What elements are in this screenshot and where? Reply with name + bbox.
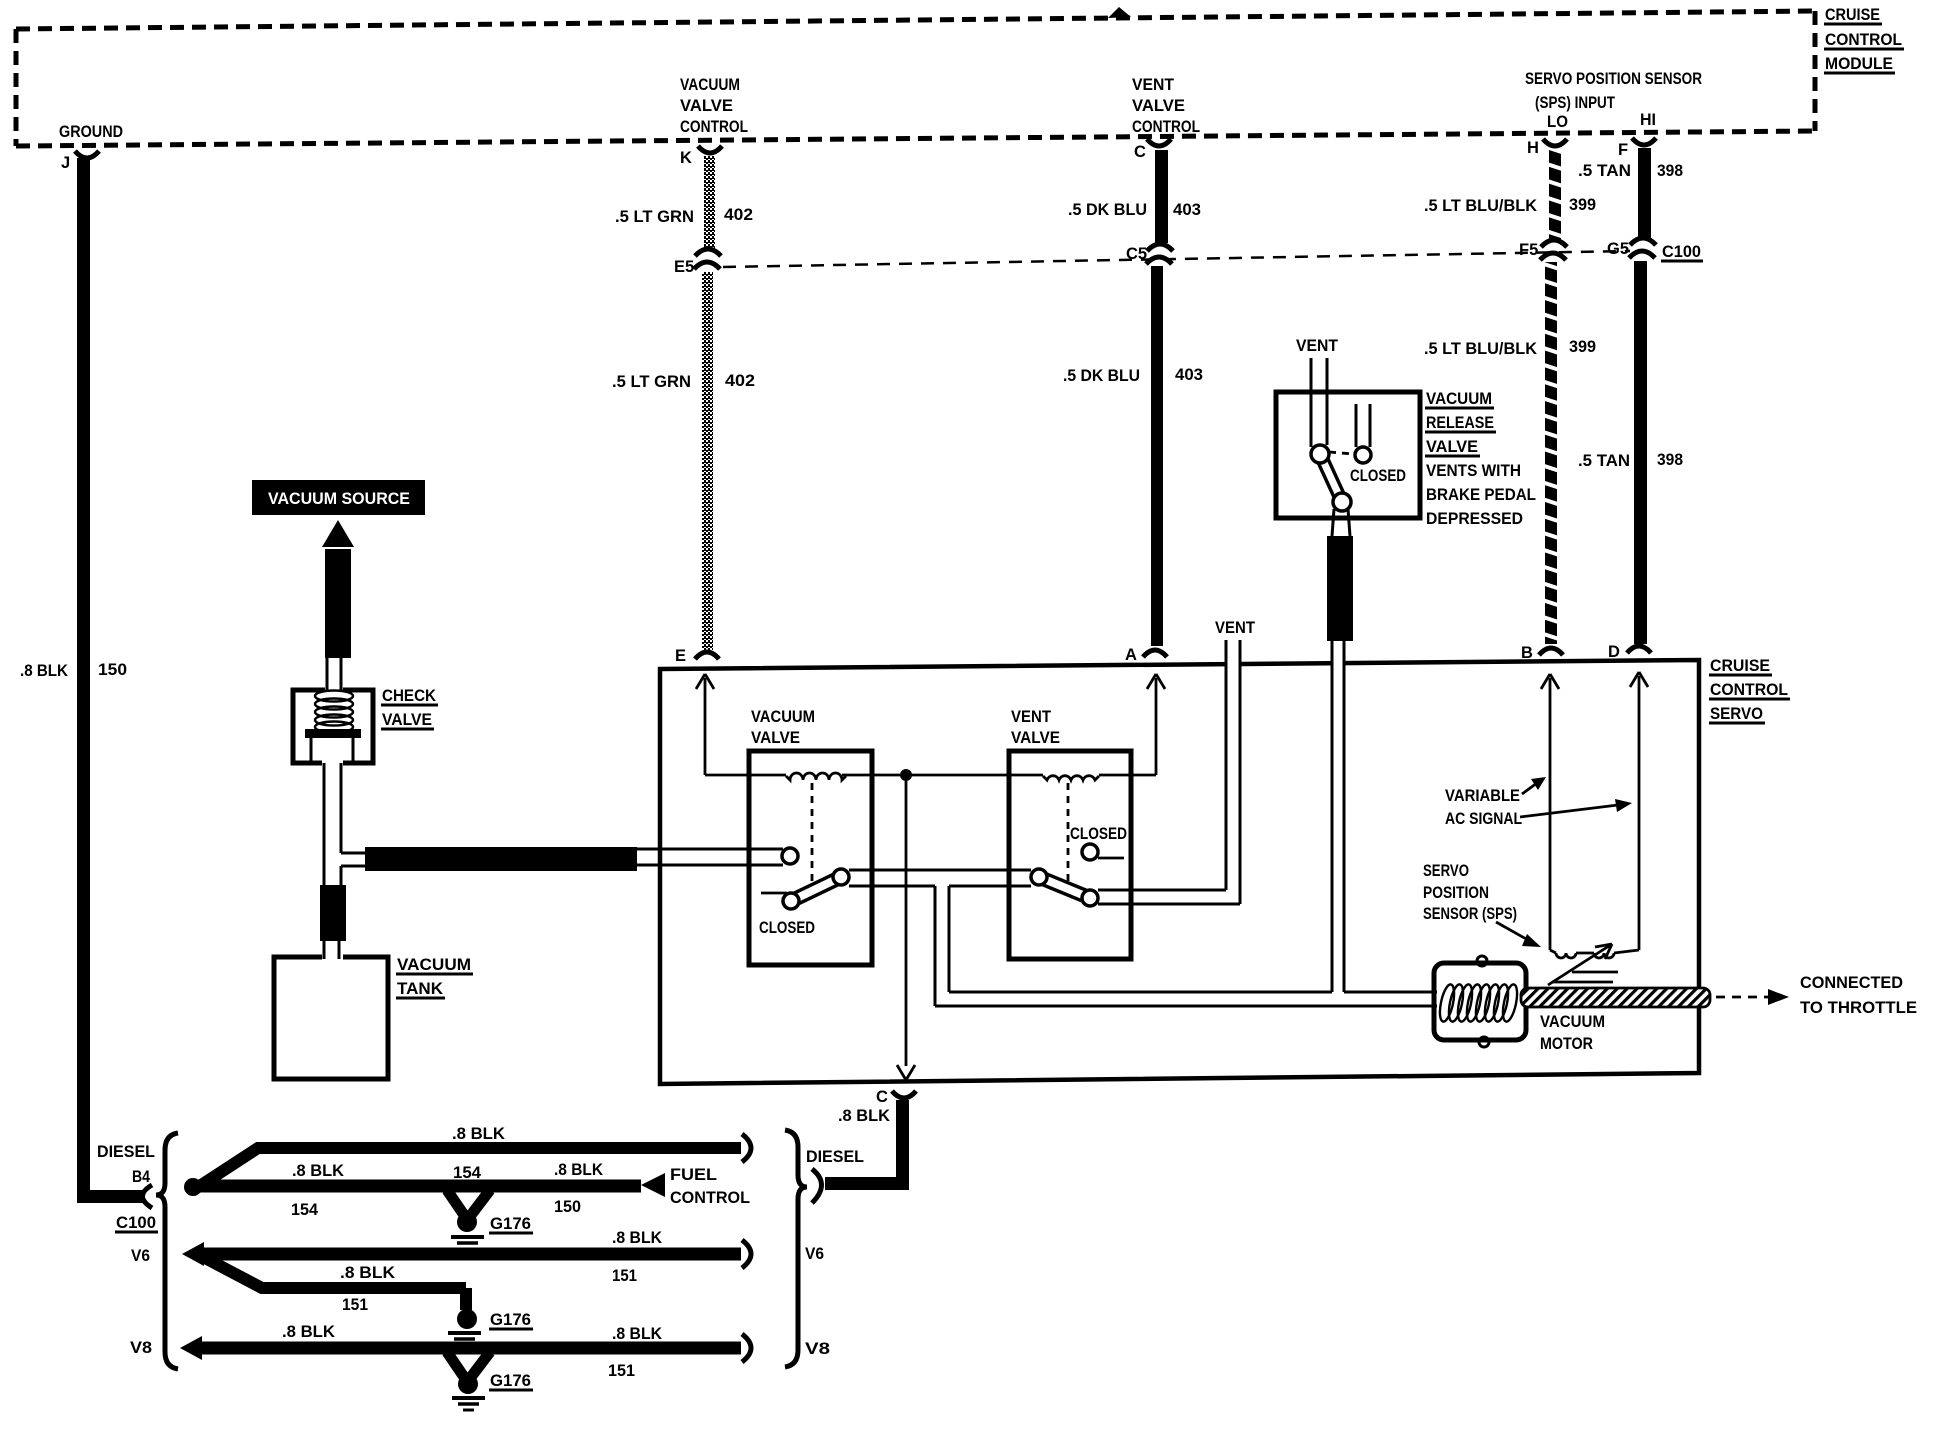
vacuum source label (black box) bbox=[252, 480, 425, 515]
svg-text:VALVE: VALVE bbox=[751, 729, 800, 747]
hose from vacuum source (black) bbox=[325, 549, 351, 658]
svg-text:TANK: TANK bbox=[397, 980, 443, 998]
svg-text:VACUUM SOURCE: VACUUM SOURCE bbox=[268, 489, 410, 508]
ground V to G176 (diesel) bbox=[447, 1190, 464, 1215]
svg-text:.5 LT GRN: .5 LT GRN bbox=[612, 373, 691, 391]
svg-text:.8 BLK: .8 BLK bbox=[292, 1162, 344, 1180]
svg-text:CONTROL: CONTROL bbox=[1710, 680, 1788, 699]
arrow variable to B wire bbox=[1522, 783, 1537, 794]
svg-text:G5: G5 bbox=[1607, 240, 1629, 258]
wire coil to A arrow bbox=[1099, 774, 1156, 777]
svg-text:CHECK: CHECK bbox=[382, 687, 436, 705]
vacuum motor bottom nipple bbox=[1479, 1037, 1489, 1047]
ground V to G176 (V8) bbox=[447, 1352, 464, 1377]
vacuum tank box bbox=[274, 957, 388, 1079]
svg-text:POSITION: POSITION bbox=[1423, 884, 1489, 902]
vacuum valve seat line bbox=[761, 892, 787, 895]
svg-text:C100: C100 bbox=[1662, 243, 1701, 261]
arrow variable to D wire bbox=[1520, 805, 1618, 817]
svg-text:CLOSED: CLOSED bbox=[1350, 467, 1406, 485]
tee to hose bbox=[341, 853, 366, 866]
connector hook at diesel brace bbox=[812, 1169, 822, 1203]
svg-text:VACUUM: VACUUM bbox=[751, 708, 815, 726]
svg-text:B4: B4 bbox=[132, 1168, 151, 1186]
pin D connector bbox=[1627, 646, 1651, 653]
vacuum source arrow bbox=[322, 520, 354, 547]
svg-text:V8: V8 bbox=[130, 1339, 152, 1357]
svg-text:DIESEL: DIESEL bbox=[97, 1143, 155, 1161]
vent tube into release valve bbox=[1311, 358, 1327, 447]
title CRUISE CONTROL SERVO bbox=[1710, 656, 1788, 723]
vent tube from vent valve up and out of servo bbox=[1098, 640, 1240, 904]
svg-text:V8: V8 bbox=[805, 1340, 830, 1358]
svg-text:G176: G176 bbox=[490, 1372, 531, 1390]
junction node bbox=[900, 769, 912, 781]
svg-text:398: 398 bbox=[1657, 451, 1683, 469]
svg-text:CONTROL: CONTROL bbox=[1132, 118, 1200, 136]
vacuum motor body bbox=[1434, 963, 1526, 1040]
arrow SPS label to sensor bbox=[1496, 922, 1528, 940]
svg-text:FUEL: FUEL bbox=[670, 1166, 717, 1184]
svg-text:VENT: VENT bbox=[1215, 619, 1255, 637]
title CRUISE CONTROL MODULE bbox=[1825, 5, 1902, 73]
svg-text:.5 DK BLU: .5 DK BLU bbox=[1063, 367, 1140, 385]
svg-text:G176: G176 bbox=[490, 1311, 531, 1329]
vent valve solenoid coil bbox=[1043, 776, 1099, 780]
tube branch down to vacuum motor line bbox=[935, 886, 1437, 1006]
svg-text:CLOSED: CLOSED bbox=[759, 919, 815, 937]
hose to vacuum tank (black) bbox=[320, 885, 346, 941]
tube into vacuum tank bbox=[324, 941, 339, 959]
svg-text:151: 151 bbox=[612, 1267, 637, 1285]
svg-text:SENSOR (SPS): SENSOR (SPS) bbox=[1423, 905, 1517, 923]
svg-text:VALVE: VALVE bbox=[1011, 729, 1060, 747]
release valve lever bbox=[1320, 454, 1342, 502]
svg-text:150: 150 bbox=[98, 661, 127, 679]
connector G5 bbox=[1630, 238, 1656, 245]
svg-text:F5: F5 bbox=[1519, 241, 1538, 259]
tube vacuum valve to vent valve bbox=[849, 870, 1031, 886]
vent valve plunger dashed guide bbox=[1067, 783, 1070, 888]
pin H connector bbox=[1543, 139, 1567, 146]
arrow up inside servo below pin B bbox=[1541, 674, 1559, 950]
vent valve box bbox=[1009, 751, 1131, 959]
svg-text:150: 150 bbox=[554, 1198, 581, 1216]
release tube interior mask over servo edge bbox=[1334, 653, 1343, 670]
vent tube interior mask over servo edge bbox=[1228, 655, 1239, 671]
pin C connector bbox=[1147, 139, 1171, 146]
svg-text:SERVO POSITION SENSOR: SERVO POSITION SENSOR bbox=[1525, 70, 1702, 88]
svg-text:E: E bbox=[675, 647, 686, 665]
pin B connector bbox=[1539, 648, 1563, 655]
cruise control servo box bbox=[660, 660, 1699, 1084]
svg-text:.5 DK BLU: .5 DK BLU bbox=[1068, 201, 1147, 219]
wire F .5 TAN 398 upper bbox=[1638, 148, 1651, 240]
svg-text:VALVE: VALVE bbox=[1426, 437, 1478, 456]
svg-text:.5 LT BLU/BLK: .5 LT BLU/BLK bbox=[1424, 340, 1537, 358]
svg-text:.8 BLK: .8 BLK bbox=[838, 1107, 890, 1125]
svg-text:C: C bbox=[876, 1088, 888, 1106]
svg-text:VENT: VENT bbox=[1132, 76, 1174, 94]
svg-text:VALVE: VALVE bbox=[680, 97, 733, 115]
svg-text:F: F bbox=[1618, 141, 1628, 159]
tube from hose down into servo to motor line bbox=[1332, 641, 1344, 992]
wire coil to junction bbox=[842, 774, 1043, 777]
svg-text:MOTOR: MOTOR bbox=[1540, 1035, 1593, 1053]
svg-text:V6: V6 bbox=[131, 1247, 150, 1265]
svg-text:A: A bbox=[1125, 646, 1137, 664]
svg-text:C5: C5 bbox=[1126, 245, 1147, 263]
ground dot G176 (V6) bbox=[457, 1309, 477, 1329]
svg-text:.8 BLK: .8 BLK bbox=[612, 1229, 662, 1247]
svg-text:D: D bbox=[1608, 643, 1620, 661]
svg-text:LO: LO bbox=[1547, 113, 1568, 131]
vacuum valve solenoid coil bbox=[786, 773, 846, 780]
svg-text:.5 TAN: .5 TAN bbox=[1578, 452, 1630, 470]
svg-text:K: K bbox=[680, 149, 692, 167]
label VACUUM RELEASE VALVE VENTS WITH BRAKE PEDAL DEPRESSED bbox=[1426, 389, 1536, 528]
svg-text:.5 LT GRN: .5 LT GRN bbox=[615, 208, 694, 226]
vacuum motor top nipple bbox=[1477, 956, 1487, 966]
svg-text:RELEASE: RELEASE bbox=[1426, 413, 1494, 432]
svg-text:.8 BLK: .8 BLK bbox=[612, 1325, 662, 1343]
svg-text:399: 399 bbox=[1569, 196, 1596, 214]
pin K connector bbox=[698, 146, 722, 153]
svg-text:.8 BLK: .8 BLK bbox=[452, 1125, 505, 1143]
arrow up inside servo below pin D bbox=[1630, 672, 1648, 950]
left brace { bbox=[156, 1133, 178, 1369]
connector B4 C100 hook bbox=[143, 1185, 153, 1208]
cruise control module box (dashed outline) bbox=[16, 11, 1815, 146]
pin C connector (servo bottom) bbox=[892, 1091, 916, 1098]
svg-text:.8 BLK: .8 BLK bbox=[554, 1161, 603, 1179]
svg-text:399: 399 bbox=[1569, 338, 1596, 356]
svg-text:CRUISE: CRUISE bbox=[1710, 656, 1770, 675]
svg-text:CONTROL: CONTROL bbox=[1825, 30, 1902, 49]
svg-text:SERVO: SERVO bbox=[1423, 862, 1469, 880]
svg-text:VACUUM: VACUUM bbox=[680, 76, 740, 94]
check valve box bbox=[293, 690, 373, 763]
wire V6 row .8 BLK 151 bbox=[202, 1248, 741, 1261]
release valve seat circle bbox=[1355, 447, 1371, 463]
svg-text:402: 402 bbox=[725, 372, 755, 390]
vacuum valve port circle bbox=[782, 848, 798, 864]
tube below release valve bbox=[1332, 509, 1350, 536]
svg-text:.5 TAN: .5 TAN bbox=[1578, 162, 1631, 180]
svg-text:VARIABLE: VARIABLE bbox=[1445, 787, 1520, 805]
wire F .5 TAN 398 lower bbox=[1634, 261, 1647, 644]
svg-text:.8 BLK: .8 BLK bbox=[20, 662, 68, 680]
svg-text:GROUND: GROUND bbox=[59, 123, 123, 141]
svg-text:151: 151 bbox=[608, 1362, 635, 1380]
svg-text:SERVO: SERVO bbox=[1710, 704, 1763, 723]
SPS wiper base lines bbox=[1552, 972, 1618, 982]
svg-text:H: H bbox=[1527, 139, 1539, 157]
wire from E arrow to vacuum valve coil bbox=[705, 774, 786, 777]
svg-text:V6: V6 bbox=[805, 1245, 824, 1263]
wire C .8 BLK to C100 bbox=[896, 1100, 909, 1190]
pin F connector bbox=[1632, 138, 1656, 145]
wire diesel row to fuel control .8 BLK 154/150 bbox=[190, 1180, 641, 1193]
svg-text:J: J bbox=[61, 154, 70, 172]
svg-text:(SPS) INPUT: (SPS) INPUT bbox=[1535, 94, 1615, 112]
arrow to throttle bbox=[1768, 989, 1789, 1005]
svg-text:AC SIGNAL: AC SIGNAL bbox=[1445, 810, 1522, 828]
svg-text:CONTROL: CONTROL bbox=[670, 1189, 750, 1207]
wire V6 ground branch .8 BLK 151 bbox=[205, 1258, 466, 1288]
svg-text:DEPRESSED: DEPRESSED bbox=[1426, 509, 1523, 528]
svg-text:VALVE: VALVE bbox=[1132, 97, 1185, 115]
fuel control arrow bbox=[641, 1173, 665, 1197]
right brace } bbox=[785, 1130, 807, 1367]
connector C5 bbox=[1147, 244, 1173, 251]
svg-text:HI: HI bbox=[1640, 111, 1656, 129]
tube into vacuum valve bbox=[637, 849, 783, 865]
svg-text:VACUUM: VACUUM bbox=[1426, 389, 1492, 408]
release valve port stub bbox=[1356, 404, 1370, 447]
check valve stem bbox=[311, 738, 353, 763]
svg-text:.8 BLK: .8 BLK bbox=[340, 1264, 395, 1282]
wire junction down to pin C with arrow bbox=[897, 781, 915, 1080]
arrow up inside servo below pin E bbox=[696, 674, 714, 775]
dashed link to throttle bbox=[1716, 996, 1768, 999]
svg-text:.5 LT BLU/BLK: .5 LT BLU/BLK bbox=[1424, 197, 1537, 215]
arrow up inside servo below pin A bbox=[1147, 674, 1165, 775]
wire H .5 LT BLU/BLK 399 upper (striped) bbox=[1549, 150, 1561, 240]
svg-text:CONNECTED: CONNECTED bbox=[1800, 974, 1903, 992]
svg-text:402: 402 bbox=[724, 206, 753, 224]
release valve dashed link bbox=[1329, 452, 1353, 454]
svg-text:.8 BLK: .8 BLK bbox=[282, 1323, 335, 1341]
svg-text:403: 403 bbox=[1175, 366, 1203, 384]
connector F5 bbox=[1541, 240, 1567, 247]
svg-text:154: 154 bbox=[453, 1164, 482, 1182]
vacuum valve box bbox=[749, 751, 872, 965]
vent valve seat circle and line bbox=[1082, 844, 1098, 860]
ground symbol G176 (diesel) bbox=[451, 1237, 484, 1249]
wire K .5 LT GRN 402 upper (stippled) bbox=[704, 156, 715, 248]
svg-text:398: 398 bbox=[1657, 162, 1683, 180]
svg-text:VACUUM: VACUUM bbox=[397, 956, 471, 974]
vacuum motor spring coil bbox=[1437, 983, 1520, 1023]
connector E5 bbox=[695, 249, 721, 256]
check valve spring bbox=[315, 691, 353, 733]
hose from check valve tee to vacuum valve (black) bbox=[365, 847, 637, 871]
svg-text:151: 151 bbox=[342, 1296, 368, 1314]
svg-text:CLOSED: CLOSED bbox=[1070, 825, 1127, 843]
check valve plate bbox=[305, 729, 361, 738]
pin J connector bbox=[75, 151, 99, 158]
vacuum valve lever bbox=[791, 877, 841, 901]
svg-text:BRAKE PEDAL: BRAKE PEDAL bbox=[1426, 485, 1536, 504]
svg-text:DIESEL: DIESEL bbox=[806, 1148, 864, 1166]
svg-text:403: 403 bbox=[1173, 201, 1201, 219]
svg-text:VENT: VENT bbox=[1011, 708, 1051, 726]
svg-text:CRUISE: CRUISE bbox=[1825, 5, 1880, 24]
wire K .5 LT GRN 402 lower (stippled) bbox=[702, 272, 713, 650]
wire C .5 DK BLU 403 upper bbox=[1155, 150, 1168, 243]
svg-text:MODULE: MODULE bbox=[1825, 54, 1893, 73]
wire diesel row upper .8 BLK bbox=[192, 1148, 741, 1191]
svg-text:VENTS WITH: VENTS WITH bbox=[1426, 461, 1521, 480]
pin A connector bbox=[1143, 650, 1167, 657]
SPS wiper arrow bbox=[1548, 944, 1612, 985]
svg-text:VACUUM: VACUUM bbox=[1540, 1013, 1605, 1031]
wire H .5 LT BLU/BLK 399 lower (striped) bbox=[1545, 262, 1557, 644]
svg-text:G176: G176 bbox=[490, 1215, 531, 1233]
svg-text:C: C bbox=[1134, 143, 1146, 161]
svg-text:B: B bbox=[1521, 644, 1533, 662]
svg-text:C100: C100 bbox=[116, 1214, 156, 1232]
vacuum release valve box bbox=[1276, 392, 1420, 518]
tube into check valve bbox=[327, 658, 341, 692]
connector C100 dashed line bbox=[723, 251, 1630, 267]
wire J ground .8 BLK 150 bbox=[77, 158, 90, 1196]
throttle rod (hatched) bbox=[1521, 988, 1710, 1007]
tube below check valve bbox=[324, 763, 341, 885]
svg-text:154: 154 bbox=[291, 1201, 319, 1219]
vacuum valve plunger dashed guide bbox=[811, 783, 814, 888]
wire C .5 DK BLU 403 lower bbox=[1151, 266, 1163, 646]
svg-text:VENT: VENT bbox=[1296, 337, 1338, 355]
SPS resistive element with coil bumps bbox=[1550, 950, 1639, 958]
wire V8 row .8 BLK 151 bbox=[200, 1342, 741, 1355]
vent valve lever bbox=[1039, 877, 1090, 898]
svg-text:CONTROL: CONTROL bbox=[680, 118, 748, 136]
pin E connector bbox=[695, 652, 719, 659]
svg-text:TO THROTTLE: TO THROTTLE bbox=[1800, 999, 1917, 1017]
svg-text:E5: E5 bbox=[674, 258, 694, 276]
svg-text:VALVE: VALVE bbox=[382, 711, 432, 729]
release valve hose (black) bbox=[1327, 536, 1353, 641]
alignment bump on module top edge bbox=[1108, 7, 1131, 18]
